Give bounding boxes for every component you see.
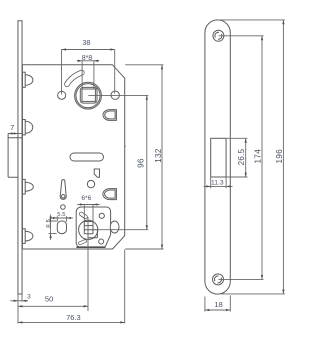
tilted capsule slot B (80, 241, 85, 243)
follower plate bottom thick edge (76, 246, 105, 248)
svg-text:196: 196 (275, 149, 284, 164)
dimension texts (10, 38, 284, 322)
dim 6*6 arrows (80, 203, 98, 205)
dim 50 lines (18, 230, 88, 311)
dim 11.3 lines (204, 178, 233, 189)
small circle left (61, 205, 66, 210)
dim 8*8 arrows (78, 60, 99, 62)
dim 3 lines (10, 294, 28, 323)
lock body outline (22, 65, 124, 249)
latch bolt bump 2 (22, 120, 32, 135)
D-hole lower outer (103, 189, 117, 200)
tiny mark on body edge (124, 146, 126, 148)
dim 18 arrows (205, 309, 230, 311)
dim 174 arrows (261, 36, 263, 280)
dim 26.5 arrows (245, 138, 247, 177)
D-hole upper outer (103, 110, 116, 121)
dim 196 arrows (282, 20, 284, 294)
faceplate edge view strip (18, 21, 22, 294)
dim 8.5 lines (49, 215, 57, 241)
faceplate front view (205, 20, 230, 294)
oval on body right edge (110, 221, 119, 233)
dim 76.3 arrows (18, 321, 125, 323)
slot 5.5 x 8.5 (57, 221, 66, 234)
dim 38 lines (62, 50, 115, 95)
dim 5.5 arrows (53, 217, 71, 219)
D-hole lower inner (105, 190, 116, 198)
spindle square outer (80, 87, 97, 103)
small circle mid (87, 180, 94, 187)
screw hole left (58, 91, 66, 99)
wedge cam (94, 169, 99, 177)
arrowheads (8, 20, 284, 324)
svg-text:38: 38 (82, 38, 90, 47)
horizontal slot (70, 153, 104, 161)
svg-text:8*8: 8*8 (82, 55, 93, 62)
faceplate screw hole top (213, 30, 224, 41)
follower square lines (84, 222, 97, 238)
dim 76.3 lines (18, 250, 125, 324)
spindle square inner 8x8 (82, 89, 95, 101)
follower circle (79, 220, 98, 239)
teardrop pin (60, 180, 66, 200)
strike box section lines (8, 134, 22, 178)
dim 26.5 lines (227, 138, 248, 177)
dim 8.5 arrows (49, 217, 51, 238)
faceplate cutout (211, 138, 226, 177)
latch bolt bump 1 (22, 72, 32, 87)
spindle hub circles (75, 82, 102, 109)
dim 8*8 lines (77, 61, 99, 89)
dim 38 arrows (62, 48, 115, 50)
latch bolt bump 3 (22, 179, 33, 194)
dim 96 lines (88, 95, 148, 229)
svg-text:11.3: 11.3 (211, 180, 224, 187)
svg-text:50: 50 (45, 295, 53, 304)
svg-text:5.5: 5.5 (57, 212, 66, 218)
dim 18 lines (205, 296, 230, 312)
svg-text:3: 3 (27, 293, 31, 300)
dim 7 lines (8, 133, 22, 135)
dim 11.3 arrows (206, 185, 230, 187)
svg-text:76.3: 76.3 (66, 313, 81, 322)
dimension lines (8, 20, 285, 324)
dim 3 arrows (14, 300, 27, 302)
svg-text:8.5: 8.5 (45, 219, 52, 228)
dim 6*6 lines (77, 205, 100, 222)
dim 174 lines (219, 36, 264, 280)
latch bolt bump 4 (22, 229, 32, 244)
screw hole right (111, 91, 119, 99)
small circle plate top-right (99, 213, 104, 218)
dim 132 lines (125, 65, 163, 249)
small circle plate bottom-right (99, 239, 104, 244)
tilted capsule slot A (81, 214, 85, 217)
svg-text:132: 132 (154, 148, 163, 163)
dim 96 arrows (146, 95, 148, 229)
D-hole upper inner (105, 111, 115, 119)
svg-text:7: 7 (10, 123, 14, 132)
banana slot (67, 73, 82, 85)
svg-text:6*6: 6*6 (81, 195, 91, 202)
faceplate screw hole bottom (213, 274, 224, 285)
dim 132 arrows (161, 65, 163, 249)
follower plate (76, 207, 110, 247)
dim 5.5 lines (51, 216, 73, 222)
svg-text:26.5: 26.5 (237, 148, 246, 165)
dim 196 lines (220, 20, 285, 294)
dim 50 arrows (18, 305, 88, 307)
svg-text:174: 174 (254, 149, 263, 164)
svg-text:18: 18 (214, 300, 222, 309)
svg-text:96: 96 (136, 158, 145, 168)
dim 7 arrows (8, 132, 18, 134)
